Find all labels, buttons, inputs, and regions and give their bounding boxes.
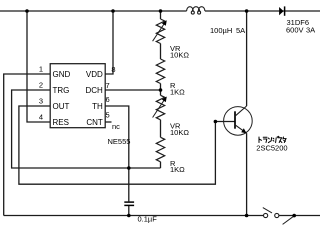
svg-text:NE555: NE555 xyxy=(108,137,131,146)
wire collector xyxy=(246,11,248,106)
resistor VR1 zigzag xyxy=(156,19,164,43)
wire VDD pin8 xyxy=(105,11,113,74)
wire GND pin1 xyxy=(4,74,51,216)
wire top rail right xyxy=(205,10,320,12)
IC U1 NE555 box xyxy=(50,64,105,128)
label Q1 name katakana xyxy=(259,136,286,142)
svg-text:0.1µF: 0.1µF xyxy=(138,215,158,224)
VR1 arrow xyxy=(153,20,167,41)
svg-text:nc: nc xyxy=(112,122,120,131)
wire TRG pin2 xyxy=(12,90,161,168)
svg-text:2SC5200: 2SC5200 xyxy=(256,143,287,152)
wire chain top xyxy=(160,11,162,19)
svg-text:10KΩ: 10KΩ xyxy=(170,50,189,59)
svg-text:600V: 600V xyxy=(286,26,304,35)
svg-text:RES: RES xyxy=(53,118,69,127)
svg-text:GND: GND xyxy=(53,70,71,79)
wire R1-node xyxy=(160,84,162,96)
svg-text:6: 6 xyxy=(106,95,110,104)
svg-text:1KΩ: 1KΩ xyxy=(170,87,185,96)
junction top rail x246 collector xyxy=(245,9,249,13)
wire bottom rail right xyxy=(279,215,320,217)
resistor VR2 zigzag xyxy=(156,95,164,119)
junction top rail x113 VDD xyxy=(111,9,115,13)
switch SW2 lever xyxy=(283,216,295,225)
junction TRG TH node xyxy=(127,166,131,170)
wire bottom rail left xyxy=(4,215,264,217)
junction cap ground xyxy=(127,214,131,218)
junction switch node xyxy=(292,214,296,218)
wire CNT pin5 stub xyxy=(105,121,111,123)
svg-text:DCH: DCH xyxy=(85,86,103,95)
wire VR1-R1 xyxy=(160,44,162,60)
svg-text:TRG: TRG xyxy=(53,86,70,95)
resistor R2 zigzag xyxy=(156,137,164,162)
junction DCH node xyxy=(159,88,163,92)
wire OUT pin3 xyxy=(19,106,235,184)
VR2 arrow xyxy=(153,97,167,118)
junction emitter ground xyxy=(245,214,249,218)
wire R2-TRG xyxy=(160,162,162,168)
junction top rail x27 xyxy=(25,9,29,13)
svg-text:2: 2 xyxy=(39,81,43,90)
capacitor C1 0.1uF xyxy=(124,202,134,205)
svg-text:10KΩ: 10KΩ xyxy=(170,128,189,137)
inductor L1 xyxy=(187,7,205,14)
wire cap to ground xyxy=(128,206,130,216)
svg-text:5: 5 xyxy=(106,111,110,120)
svg-text:3: 3 xyxy=(39,97,43,106)
svg-text:100µH: 100µH xyxy=(210,26,232,35)
wire DCH pin7 xyxy=(105,89,160,91)
switch SW1 xyxy=(263,208,279,218)
svg-text:OUT: OUT xyxy=(53,102,70,111)
wire emitter down xyxy=(246,133,248,215)
svg-text:VDD: VDD xyxy=(86,70,103,79)
svg-text:4: 4 xyxy=(39,113,43,122)
wire VR2-R2 xyxy=(160,120,162,138)
resistor R1 zigzag xyxy=(156,59,164,83)
svg-text:7: 7 xyxy=(106,81,110,90)
svg-text:5A: 5A xyxy=(236,26,245,35)
svg-text:1: 1 xyxy=(39,65,43,74)
diode D1 xyxy=(279,6,285,15)
svg-text:CNT: CNT xyxy=(86,118,103,127)
svg-text:TH: TH xyxy=(92,102,103,111)
junction base node xyxy=(214,120,218,124)
svg-text:1KΩ: 1KΩ xyxy=(170,165,185,174)
wire RES pin4 xyxy=(27,11,50,122)
svg-text:3A: 3A xyxy=(306,26,315,35)
junction top rail x160 chain xyxy=(159,9,163,13)
wire top rail left xyxy=(0,10,187,12)
svg-text:8: 8 xyxy=(111,65,115,74)
wire TH pin6 xyxy=(105,106,129,201)
transistor Q1 2SC5200 xyxy=(224,106,253,135)
